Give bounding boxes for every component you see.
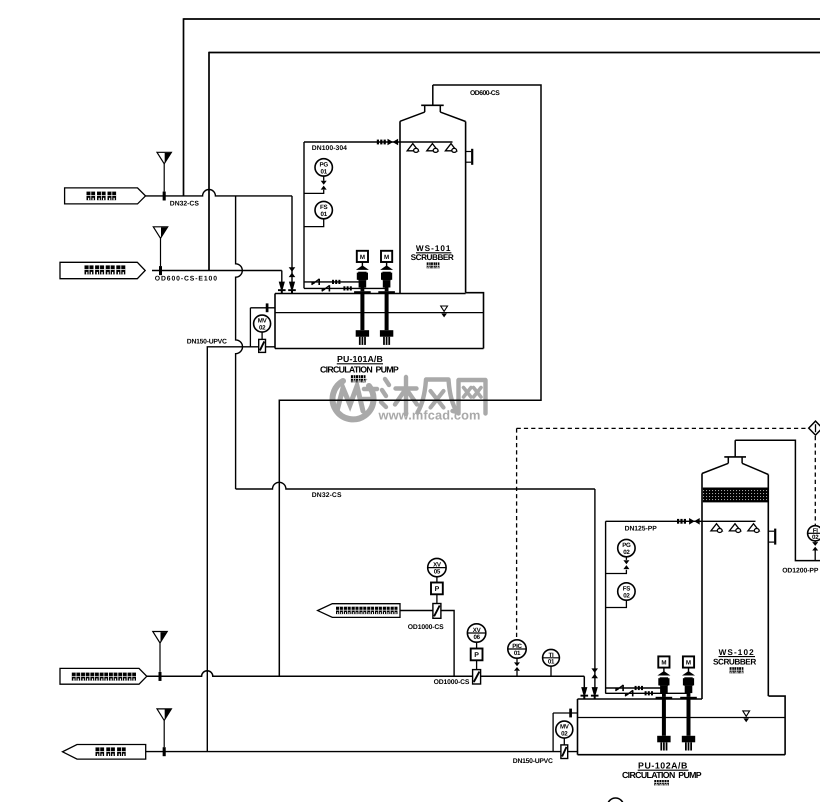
svg-text:01: 01: [514, 650, 521, 657]
svg-text:www.mfcad.com: www.mfcad.com: [378, 407, 481, 422]
svg-text:02: 02: [812, 534, 819, 541]
svg-text:OD600-CS-E100: OD600-CS-E100: [155, 276, 218, 283]
svg-text:02: 02: [623, 549, 630, 556]
svg-text:SCRUBBER: SCRUBBER: [713, 658, 756, 667]
svg-text:DN32-CS: DN32-CS: [170, 200, 200, 207]
svg-text:M: M: [661, 660, 666, 667]
svg-text:05: 05: [434, 569, 441, 576]
svg-text:WS-102: WS-102: [719, 648, 755, 657]
svg-text:01: 01: [548, 659, 555, 666]
svg-text:01: 01: [321, 211, 328, 218]
svg-text:02: 02: [259, 325, 266, 332]
svg-text:M: M: [384, 254, 389, 261]
svg-text:M: M: [686, 660, 691, 667]
svg-text:02: 02: [561, 731, 568, 738]
svg-text:CIRCULATION PUMP: CIRCULATION PUMP: [622, 770, 702, 780]
svg-text:06: 06: [473, 634, 480, 641]
svg-text:M: M: [360, 254, 365, 261]
svg-text:OD600-CS: OD600-CS: [470, 90, 500, 97]
svg-text:OD1000-CS: OD1000-CS: [408, 624, 444, 631]
svg-text:SCRUBBER: SCRUBBER: [411, 253, 454, 262]
svg-text:P: P: [474, 652, 479, 659]
svg-text:02: 02: [623, 592, 630, 599]
svg-text:P: P: [435, 586, 440, 593]
svg-text:DN125-PP: DN125-PP: [625, 526, 658, 533]
svg-text:OD1000-CS: OD1000-CS: [434, 679, 470, 686]
svg-text:DN32-CS: DN32-CS: [312, 492, 342, 499]
svg-text:CIRCULATION PUMP: CIRCULATION PUMP: [320, 364, 399, 374]
svg-text:01: 01: [321, 168, 328, 175]
svg-text:PU-101A/B: PU-101A/B: [337, 354, 383, 364]
svg-text:DN150-UPVC: DN150-UPVC: [187, 338, 227, 345]
svg-text:OD1200-PP: OD1200-PP: [782, 568, 819, 575]
svg-text:PU-102A/B: PU-102A/B: [638, 760, 688, 770]
svg-text:DN150-UPVC: DN150-UPVC: [513, 758, 553, 765]
svg-text:DN100-304: DN100-304: [312, 145, 347, 152]
